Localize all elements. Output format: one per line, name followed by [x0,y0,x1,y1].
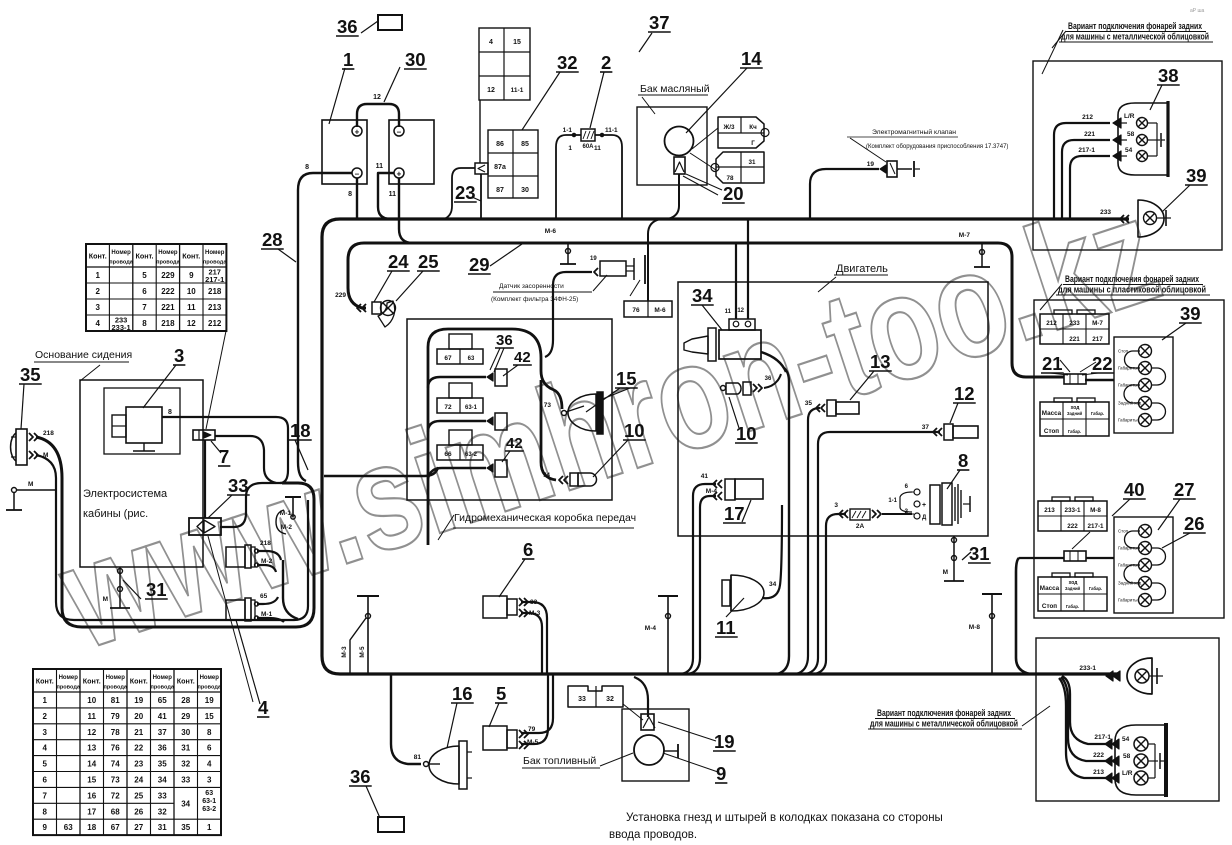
svg-text:7: 7 [142,303,147,312]
svg-text:27: 27 [1174,479,1195,500]
svg-text:М-1: М-1 [261,611,273,618]
svg-text:ход: ход [1069,580,1079,586]
svg-text:6: 6 [523,539,533,560]
svg-text:Бак масляный: Бак масляный [640,83,710,95]
svg-text:6: 6 [142,287,147,296]
svg-text:15: 15 [205,712,214,721]
svg-text:Г: Г [751,140,755,147]
svg-text:222: 222 [161,287,175,296]
svg-text:М-6: М-6 [654,307,666,314]
svg-text:63: 63 [468,356,475,362]
svg-text:233-1: 233-1 [1064,507,1081,514]
svg-text:72: 72 [444,404,452,411]
svg-text:10: 10 [736,423,757,444]
svg-text:5: 5 [496,683,506,704]
svg-text:218: 218 [260,540,271,547]
svg-text:Стоп: Стоп [1118,349,1129,354]
svg-text:34: 34 [769,581,777,588]
svg-text:–: – [397,128,402,137]
svg-text:68: 68 [111,807,120,816]
svg-text:35: 35 [181,823,190,832]
svg-text:217-1: 217-1 [1087,523,1104,530]
svg-text:М-4: М-4 [645,625,657,632]
svg-text:29: 29 [181,712,190,721]
svg-text:Номер: Номер [200,675,220,681]
svg-text:М-3: М-3 [341,646,348,658]
svg-text:233: 233 [1100,209,1111,216]
svg-text:Д: Д [922,515,927,521]
svg-text:провода: провода [197,685,221,691]
svg-text:5: 5 [43,760,48,769]
svg-text:217: 217 [1092,336,1103,343]
svg-text:30: 30 [181,728,190,737]
svg-text:32: 32 [606,696,614,703]
svg-text:35: 35 [805,400,813,407]
svg-text:60А: 60А [582,144,594,150]
svg-text:19: 19 [714,731,735,752]
svg-text:М-3: М-3 [529,610,541,617]
svg-text:233-1: 233-1 [1079,665,1096,672]
svg-text:229: 229 [161,271,175,280]
svg-text:30: 30 [521,187,529,194]
svg-text:76: 76 [111,744,120,753]
svg-text:30: 30 [405,49,426,70]
svg-text:39: 39 [1180,303,1201,324]
svg-text:11: 11 [725,309,732,315]
svg-text:2: 2 [601,52,611,73]
svg-text:Задний: Задний [1067,411,1083,416]
svg-text:М-5: М-5 [359,646,366,658]
svg-text:М-5: М-5 [527,739,539,746]
svg-text:Электромагнитный клапан: Электромагнитный клапан [872,128,956,136]
svg-text:213: 213 [208,303,222,312]
svg-text:212: 212 [1046,320,1057,327]
svg-text:11-1: 11-1 [605,127,618,134]
svg-text:87: 87 [496,187,504,194]
svg-text:19: 19 [867,161,875,168]
svg-text:34: 34 [692,285,713,306]
svg-text:М-1: М-1 [280,510,292,517]
svg-text:16: 16 [87,791,96,800]
svg-text:79: 79 [528,726,536,733]
svg-text:32: 32 [557,52,578,73]
svg-text:–: – [355,170,360,179]
svg-text:Масса: Масса [1040,585,1060,592]
svg-text:13: 13 [870,351,891,372]
svg-text:26: 26 [134,807,143,816]
svg-text:79: 79 [111,712,120,721]
svg-text:1: 1 [568,145,572,152]
svg-text:3: 3 [174,345,184,366]
svg-text:Стоп: Стоп [1044,428,1059,435]
svg-text:72: 72 [111,791,120,800]
svg-text:L/R: L/R [1124,113,1135,120]
svg-text:36: 36 [158,744,167,753]
svg-text:Бак топливный: Бак топливный [523,755,596,767]
svg-text:37: 37 [158,728,167,737]
svg-text:Конт.: Конт. [177,677,195,686]
svg-text:15: 15 [616,368,637,389]
svg-text:для машины с металлической обл: для машины с металлической облицовкой [870,719,1018,729]
svg-text:Задний: Задний [1065,586,1081,591]
svg-text:36: 36 [496,332,513,349]
svg-text:63-2: 63-2 [465,452,478,458]
svg-text:1-1: 1-1 [888,498,897,504]
svg-text:4: 4 [258,697,269,718]
svg-text:67: 67 [111,823,120,832]
svg-text:провода: провода [56,685,80,691]
svg-text:6: 6 [207,744,212,753]
svg-text:Кч: Кч [749,124,757,131]
svg-text:3: 3 [95,303,100,312]
svg-text:20: 20 [723,183,744,204]
svg-text:L/R: L/R [1122,770,1133,777]
svg-text:31: 31 [181,744,190,753]
svg-text:М-7: М-7 [959,232,971,239]
svg-text:2А: 2А [856,523,865,530]
svg-text:Электросистема: Электросистема [83,488,168,500]
svg-text:12: 12 [187,319,196,328]
svg-text:222: 222 [1067,523,1078,530]
svg-text:Габариты: Габариты [1118,366,1138,371]
svg-text:34: 34 [158,775,167,784]
svg-text:11: 11 [594,145,601,152]
svg-text:78: 78 [111,728,120,737]
svg-text:Стоп: Стоп [1118,529,1129,534]
svg-text:8: 8 [207,728,212,737]
svg-text:М-2: М-2 [261,558,273,565]
svg-text:83: 83 [530,599,538,606]
svg-text:Габар.: Габар. [1091,411,1104,416]
svg-text:Габариты: Габариты [1118,598,1138,603]
svg-text:19: 19 [590,256,597,262]
svg-text:21: 21 [134,728,143,737]
svg-text:7: 7 [43,791,48,800]
svg-text:78: 78 [726,175,734,182]
svg-text:Конт.: Конт. [135,252,153,261]
svg-text:М-7: М-7 [1092,320,1103,327]
svg-text:221: 221 [161,303,175,312]
svg-text:Вариант подключения фонарей за: Вариант подключения фонарей задних [1068,21,1202,31]
svg-text:74: 74 [111,760,120,769]
svg-text:М: М [28,481,33,488]
svg-text:провода: провода [156,260,180,266]
svg-text:13: 13 [87,744,96,753]
svg-text:33: 33 [228,475,249,496]
svg-text:Вариант подключения фонарей за: Вариант подключения фонарей задних [877,708,1011,718]
svg-text:22: 22 [1092,353,1113,374]
svg-text:Габариты: Габариты [1118,546,1138,551]
svg-text:58: 58 [1123,753,1131,760]
svg-text:28: 28 [262,229,283,250]
svg-text:18: 18 [290,420,311,441]
svg-text:Конт.: Конт. [36,677,54,686]
svg-text:41: 41 [158,712,167,721]
svg-text:37: 37 [922,424,930,431]
svg-text:4: 4 [207,760,212,769]
svg-text:Габар.: Габар. [1089,586,1102,591]
svg-text:31: 31 [969,543,990,564]
svg-text:9: 9 [43,823,48,832]
svg-text:212: 212 [208,319,222,328]
svg-text:20: 20 [134,712,143,721]
svg-text:217-1: 217-1 [1078,147,1095,154]
svg-text:21: 21 [1042,353,1063,374]
svg-text:провода: провода [150,685,174,691]
svg-text:1: 1 [207,823,212,832]
svg-text:+: + [355,128,360,137]
svg-text:8: 8 [43,807,48,816]
svg-text:Основание сидения: Основание сидения [35,349,132,361]
svg-text:229: 229 [335,292,346,299]
svg-text:10: 10 [624,420,645,441]
svg-text:81: 81 [111,696,120,705]
svg-text:37: 37 [649,12,670,33]
svg-text:217-1: 217-1 [205,275,224,284]
svg-text:Задний ход: Задний ход [1118,401,1142,406]
svg-text:провода: провода [103,685,127,691]
svg-text:+: + [922,502,926,509]
svg-text:16: 16 [452,683,473,704]
svg-text:Конт.: Конт. [182,252,200,261]
svg-text:М: М [103,596,108,603]
svg-text:8: 8 [168,409,172,416]
svg-text:19: 19 [205,696,214,705]
svg-text:212: 212 [1082,114,1093,121]
svg-text:7: 7 [219,446,229,467]
svg-text:для машины с металлической обл: для машины с металлической облицовкой [1061,32,1209,42]
svg-text:провода: провода [203,260,227,266]
svg-text:17: 17 [724,503,745,524]
svg-text:+: + [397,170,402,179]
svg-text:86: 86 [496,141,504,148]
svg-text:Двигатель: Двигатель [836,263,888,275]
svg-text:23: 23 [134,760,143,769]
svg-text:11: 11 [716,617,736,638]
svg-text:10: 10 [187,287,196,296]
svg-text:54: 54 [1125,147,1133,154]
svg-text:73: 73 [111,775,120,784]
svg-text:63-1: 63-1 [202,798,216,805]
svg-text:4: 4 [43,744,48,753]
svg-text:54: 54 [1122,736,1130,743]
svg-text:для машины с пластиковой облиц: для машины с пластиковой облицовкой [1058,285,1206,295]
svg-text:8: 8 [348,191,352,198]
svg-text:221: 221 [1084,131,1095,138]
svg-text:11: 11 [389,191,397,198]
svg-text:41: 41 [701,473,709,480]
svg-text:Номер: Номер [205,250,225,256]
svg-text:2: 2 [95,287,100,296]
svg-text:31: 31 [146,579,167,600]
svg-text:Конт.: Конт. [83,677,101,686]
svg-text:222: 222 [1093,752,1104,759]
svg-text:218: 218 [208,287,222,296]
svg-text:24: 24 [388,251,409,272]
svg-text:14: 14 [741,48,762,69]
svg-text:31: 31 [748,159,756,166]
svg-text:35: 35 [20,364,41,385]
svg-text:22: 22 [134,744,143,753]
svg-text:42: 42 [506,435,523,452]
svg-text:М: М [943,569,948,576]
svg-text:63-2: 63-2 [202,806,216,813]
svg-text:Номер: Номер [158,250,178,256]
svg-text:Номер: Номер [59,675,79,681]
svg-text:Габариты: Габариты [1118,383,1138,388]
svg-text:18: 18 [87,823,96,832]
svg-text:19: 19 [134,696,143,705]
svg-text:кабины (рис.: кабины (рис. [83,508,148,520]
svg-text:10: 10 [87,696,96,705]
svg-text:26: 26 [1184,513,1205,534]
svg-text:31: 31 [158,823,167,832]
svg-text:Вариант подключения фонарей за: Вариант подключения фонарей задних [1065,274,1199,284]
svg-text:38: 38 [1158,65,1179,86]
svg-text:17: 17 [87,807,96,816]
svg-text:3: 3 [207,775,212,784]
svg-text:218: 218 [161,319,175,328]
svg-text:8: 8 [142,319,147,328]
svg-text:25: 25 [134,791,143,800]
svg-text:213: 213 [1044,507,1055,514]
svg-text:36: 36 [337,16,358,37]
svg-text:провода: провода [109,260,133,266]
svg-text:Номер: Номер [111,250,131,256]
svg-text:3: 3 [834,502,838,509]
svg-text:24: 24 [134,775,143,784]
svg-text:76: 76 [632,307,640,314]
svg-text:Номер: Номер [106,675,126,681]
svg-text:8: 8 [958,450,968,471]
svg-text:213: 213 [1093,769,1104,776]
svg-text:74: 74 [543,472,551,479]
svg-text:Номер: Номер [153,675,173,681]
svg-text:65: 65 [158,696,167,705]
svg-text:39: 39 [1186,165,1207,186]
svg-text:9: 9 [716,763,726,784]
svg-text:65: 65 [260,593,268,600]
svg-text:Гидромеханическая коробка пере: Гидромеханическая коробка передач [454,512,636,524]
svg-text:ввода проводов.: ввода проводов. [609,829,697,841]
svg-text:5: 5 [142,271,147,280]
svg-text:15: 15 [87,775,96,784]
svg-text:217-1: 217-1 [1094,734,1111,741]
svg-text:66: 66 [444,451,452,458]
svg-text:12: 12 [87,728,96,737]
svg-text:Конт.: Конт. [130,677,148,686]
svg-text:14: 14 [87,760,96,769]
svg-text:42: 42 [514,349,531,366]
svg-text:2: 2 [43,712,48,721]
svg-text:4: 4 [95,319,100,328]
svg-text:6: 6 [43,775,48,784]
svg-text:73: 73 [544,402,552,409]
svg-text:Габар.: Габар. [1068,429,1081,434]
svg-text:Установка гнезд и штырей в кол: Установка гнезд и штырей в колодках пока… [626,812,943,824]
svg-text:М-8: М-8 [969,624,981,631]
svg-text:28: 28 [181,696,190,705]
svg-text:Задний ход: Задний ход [1118,581,1142,586]
svg-text:85: 85 [521,141,529,148]
svg-text:25: 25 [418,251,439,272]
svg-text:35: 35 [158,760,167,769]
svg-text:221: 221 [1069,336,1080,343]
svg-text:23: 23 [455,182,476,203]
svg-text:1: 1 [343,49,353,70]
svg-text:Масса: Масса [1042,410,1062,417]
svg-text:8: 8 [305,164,309,171]
svg-text:(Комплект оборудования приспос: (Комплект оборудования приспособления 17… [866,144,1008,150]
svg-text:63: 63 [64,823,73,832]
svg-text:1: 1 [43,696,48,705]
svg-text:3: 3 [43,728,48,737]
svg-text:М-8: М-8 [1090,507,1101,514]
svg-text:1-1: 1-1 [563,127,573,134]
svg-text:11: 11 [88,712,97,721]
svg-text:33: 33 [181,775,190,784]
svg-text:81: 81 [414,754,422,761]
svg-text:12: 12 [954,383,975,404]
svg-text:Конт.: Конт. [89,252,107,261]
svg-text:аР ша: аР ша [1190,8,1205,14]
svg-text:12: 12 [487,87,495,94]
svg-text:М-2: М-2 [281,524,293,531]
svg-text:Стоп: Стоп [1042,603,1057,610]
svg-text:58: 58 [1127,131,1135,138]
svg-text:4: 4 [489,39,493,46]
svg-text:34: 34 [181,799,190,808]
svg-text:40: 40 [1124,479,1145,500]
svg-text:63: 63 [205,790,213,797]
svg-text:87а: 87а [494,164,506,171]
svg-text:36: 36 [765,376,772,382]
svg-text:36: 36 [350,766,371,787]
svg-text:15: 15 [513,39,521,46]
svg-text:11-1: 11-1 [511,87,524,94]
svg-text:32: 32 [181,760,190,769]
svg-text:12: 12 [737,308,744,314]
svg-text:(Комплект фильтра 34ФН-25): (Комплект фильтра 34ФН-25) [491,296,578,303]
svg-text:67: 67 [444,355,452,362]
svg-text:63-1: 63-1 [465,405,478,411]
svg-text:Габариты: Габариты [1118,418,1138,423]
svg-text:11: 11 [376,163,384,170]
svg-text:32: 32 [158,807,167,816]
svg-text:Габар.: Габар. [1066,604,1079,609]
svg-text:М-6: М-6 [545,228,557,235]
svg-text:1: 1 [95,271,100,280]
svg-text:12: 12 [373,94,381,101]
svg-text:М-4: М-4 [706,488,718,495]
svg-text:Датчик засоренности: Датчик засоренности [499,283,564,290]
svg-text:Габариты: Габариты [1118,563,1138,568]
svg-text:11: 11 [187,303,196,312]
svg-text:33: 33 [578,696,586,703]
svg-text:29: 29 [469,254,490,275]
svg-text:218: 218 [43,430,54,437]
svg-text:27: 27 [134,823,143,832]
svg-text:9: 9 [189,271,194,280]
svg-text:М: М [43,452,48,459]
svg-text:Ж/3: Ж/3 [723,124,735,131]
svg-text:ход: ход [1071,405,1081,411]
svg-text:33: 33 [158,791,167,800]
svg-text:233-1: 233-1 [112,323,131,332]
svg-text:233: 233 [1069,320,1080,327]
